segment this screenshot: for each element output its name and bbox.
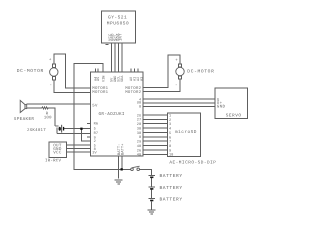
svg-text:MOTOR1: MOTOR1 — [92, 90, 108, 95]
svg-text:VCC: VCC — [53, 150, 62, 155]
svg-text:IR-RCV: IR-RCV — [45, 158, 61, 163]
microSD module AE-MICRO-SD-DIP outline — [168, 113, 201, 157]
wire U1 BATT- down to ground — [118, 156, 120, 178]
U1 top stub pin A4 — [94, 69, 96, 73]
wire SW1 to battery stack — [139, 169, 151, 175]
svg-text:7: 7 — [169, 140, 171, 145]
svg-text:BATTERY: BATTERY — [160, 173, 183, 179]
wire U1 to SD pin 8 — [143, 145, 168, 147]
U1 left stub pin R6 — [87, 122, 91, 124]
wire U1 to SD pin 1 — [143, 114, 168, 116]
wire U1 to SD pin 6 — [143, 136, 168, 138]
wire GY-521 pin SDA to U1 — [121, 43, 123, 72]
svg-text:R6: R6 — [94, 122, 99, 127]
svg-text:27: 27 — [137, 118, 142, 123]
svg-text:2SK4017: 2SK4017 — [27, 128, 46, 133]
battery BT3 minus plate — [150, 200, 153, 202]
svg-text:SDA: SDA — [120, 75, 125, 82]
svg-text:AE-MICRO-SD-DIP: AE-MICRO-SD-DIP — [169, 160, 216, 165]
svg-text:2: 2 — [169, 118, 171, 123]
switch SW1 — [131, 168, 134, 171]
SD pin numbers — [169, 113, 173, 157]
svg-text:-: - — [175, 84, 178, 88]
svg-text:3V: 3V — [92, 150, 97, 155]
battery BT2 minus plate — [150, 188, 153, 190]
svg-text:BATT+: BATT+ — [120, 143, 125, 155]
junction dot battery rail — [121, 168, 123, 170]
svg-text:MOTOR2: MOTOR2 — [125, 90, 141, 95]
svg-text:SPEAKER: SPEAKER — [14, 117, 35, 122]
svg-text:100: 100 — [44, 116, 52, 121]
svg-text:0: 0 — [139, 104, 141, 109]
wire junction to SW1 — [122, 168, 131, 170]
svg-text:4: 4 — [169, 127, 171, 132]
wire SP1 top terminal to U1 5V pin — [27, 103, 91, 105]
wire Q1 left lead down to source rail — [56, 128, 58, 134]
U1 top stub pin A5 — [97, 69, 99, 73]
svg-text:INT: INT — [119, 33, 124, 41]
wire M2 minus to U1 MOTOR2 — [143, 79, 180, 91]
wire U1 to SD pin 10 — [143, 153, 168, 155]
svg-text:SERVO: SERVO — [226, 114, 242, 119]
wire U1 to SD pin 5 — [143, 132, 168, 134]
svg-text:VIN: VIN — [101, 76, 106, 82]
svg-text:microSD: microSD — [175, 129, 197, 135]
battery BT1 plus plate — [148, 174, 155, 176]
wire M1 minus to U1 MOTOR1 — [54, 80, 91, 93]
speaker SP1 symbol — [20, 100, 25, 112]
svg-text:+: + — [175, 58, 178, 63]
svg-text:28: 28 — [137, 122, 142, 127]
battery BT1 minus plate — [150, 176, 153, 178]
wire SP1 bottom terminal to resistor R — [27, 107, 42, 109]
motor M2 terminal top — [179, 64, 182, 67]
svg-text:40: 40 — [137, 144, 142, 149]
ground symbol left — [115, 180, 123, 184]
IC U1 GR-ADZUKI outline — [91, 72, 144, 156]
svg-text:5: 5 — [94, 126, 96, 131]
U1 left stub pin 9 — [87, 136, 91, 138]
IR receiver IR-RCV outline — [49, 142, 66, 157]
wire GY-521 pin SCL to U1 — [117, 43, 119, 72]
svg-text:GY-521: GY-521 — [108, 15, 127, 21]
svg-text:A5: A5 — [96, 77, 101, 81]
battery BT2 plus plate — [148, 186, 155, 188]
wire junction down to U1 pin 2 — [81, 129, 90, 141]
wire IR OUT to U1 — [66, 144, 90, 146]
battery BT3 plus plate — [148, 198, 155, 200]
U1 pin labels right — [125, 86, 141, 95]
svg-text:-: - — [50, 84, 53, 88]
wire U1 to SD pin 7 — [143, 140, 168, 142]
svg-text:8: 8 — [139, 135, 141, 140]
wire BT1 to BT2 — [151, 178, 153, 187]
resistor R 100 zigzag — [42, 107, 49, 109]
motor M2 terminal bottom — [179, 76, 182, 79]
svg-text:10: 10 — [169, 153, 173, 158]
svg-text:6: 6 — [169, 135, 171, 140]
svg-text:38: 38 — [137, 131, 142, 136]
U1 top stub pin A0 — [130, 69, 132, 73]
U1 top pin labels rotated — [93, 75, 144, 82]
motor M1 body — [50, 68, 58, 76]
module GY-521 MPU6050 outline — [102, 11, 136, 43]
wire VIN from U1 top pin to battery rail — [74, 63, 122, 169]
svg-text:R7: R7 — [94, 131, 99, 136]
motor M1 terminal top — [52, 64, 55, 67]
wire U1 to SD pin 4 — [143, 127, 168, 129]
svg-text:30: 30 — [137, 126, 142, 131]
svg-text:29: 29 — [137, 140, 142, 145]
wire Q1 source to U1 — [57, 132, 91, 134]
junction dot on drain wire — [80, 128, 82, 130]
wire BT3 to ground — [151, 201, 153, 210]
svg-text:MPU6050: MPU6050 — [107, 20, 129, 26]
wire GY-521 pin VCC to U1 — [110, 43, 112, 72]
wire U1 to SD pin 2 — [143, 118, 168, 120]
wire U1 BATT+ down to junction — [121, 156, 123, 169]
wire Q1 drain to U1 pin 5 — [64, 128, 90, 130]
wire U1 to SD pin 3 — [143, 123, 168, 125]
motor M1 terminal bottom — [52, 76, 55, 79]
wire U1 to SD pin 9 — [143, 149, 168, 151]
pin 1 marker dash — [106, 44, 109, 46]
wire U1 to servo S — [143, 98, 215, 100]
wire IR VCC to U1 3V — [66, 151, 90, 153]
svg-text:1: 1 — [169, 113, 171, 118]
wire BT2 to BT3 — [151, 190, 153, 199]
svg-text:+: + — [49, 58, 52, 63]
svg-text:40: 40 — [137, 152, 142, 157]
U1 top stub pin A2 — [137, 69, 139, 73]
wire M1 plus to U1 MOTOR1 — [54, 54, 91, 88]
wire GY-521 pin GND to U1 — [114, 43, 116, 72]
U1 top stub pin A1 — [134, 69, 136, 73]
svg-text:2U: 2U — [137, 113, 142, 118]
servo box outline — [215, 88, 247, 118]
svg-text:5: 5 — [169, 131, 171, 136]
svg-text:GR-ADZUKI: GR-ADZUKI — [99, 112, 125, 117]
wire resistor to transistor Q1 gate — [48, 108, 56, 126]
wire U1 to servo V+ — [143, 102, 215, 104]
wire U1 to servo GND — [143, 106, 215, 108]
svg-text:BATTERY: BATTERY — [160, 185, 183, 191]
ground symbol bottom — [148, 210, 156, 214]
svg-text:A3: A3 — [139, 77, 144, 81]
wire IR GND to U1 — [66, 148, 90, 150]
svg-text:3: 3 — [169, 122, 171, 127]
svg-text:DC-MOTOR: DC-MOTOR — [187, 68, 214, 74]
wire M2 plus to U1 MOTOR2 — [143, 55, 180, 88]
svg-text:5V: 5V — [92, 103, 98, 108]
U1 bottom pin labels BATT rotated — [117, 143, 125, 155]
motor M2 body — [176, 67, 184, 75]
U1 pin labels left — [92, 86, 108, 108]
svg-text:GND: GND — [217, 105, 226, 110]
svg-text:BATTERY: BATTERY — [160, 196, 183, 202]
transistor Q1 2SK4017 symbol — [55, 125, 59, 127]
svg-text:DC-MOTOR: DC-MOTOR — [17, 68, 44, 74]
svg-text:8: 8 — [169, 144, 171, 149]
